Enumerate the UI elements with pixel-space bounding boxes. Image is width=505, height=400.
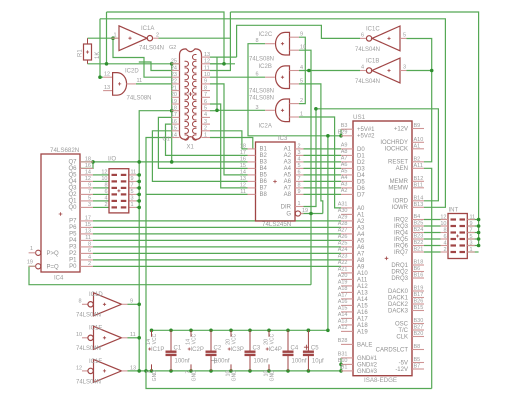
svg-text:18: 18	[240, 144, 246, 150]
svg-text:A10: A10	[357, 271, 368, 277]
svg-text:C5: C5	[311, 346, 319, 352]
svg-text:A2: A2	[284, 153, 292, 159]
svg-text:IRQ6: IRQ6	[394, 243, 409, 249]
svg-text:B2: B2	[414, 157, 421, 163]
svg-text:13: 13	[104, 85, 110, 91]
svg-text:B16: B16	[414, 273, 424, 279]
svg-text:10: 10	[300, 45, 306, 51]
svg-text:10µf: 10µf	[312, 359, 324, 365]
svg-text:OSC: OSC	[395, 321, 409, 327]
svg-text:B8: B8	[414, 344, 421, 350]
svg-text:A14: A14	[338, 312, 348, 318]
svg-text:-5V: -5V	[399, 360, 408, 366]
wire IC1A.1 node to X1 p23	[113, 38, 172, 77]
cap rail dots	[169, 329, 173, 333]
svg-text:C2: C2	[214, 346, 222, 352]
svg-text:DACK3: DACK3	[388, 308, 409, 314]
svg-text:A1: A1	[414, 144, 421, 150]
svg-text:16: 16	[85, 163, 91, 169]
svg-text:INT: INT	[449, 208, 459, 214]
origin cross	[212, 358, 218, 364]
svg-text:100nf: 100nf	[215, 359, 230, 365]
svg-text:10: 10	[101, 176, 107, 182]
svg-text:A30: A30	[338, 208, 348, 214]
svg-text:P2: P2	[69, 251, 77, 257]
svg-text:74LS08N: 74LS08N	[127, 96, 152, 102]
svg-text:7: 7	[470, 227, 473, 233]
svg-text:5: 5	[300, 78, 303, 84]
svg-text:B18: B18	[414, 260, 424, 266]
svg-text:1K: 1K	[95, 52, 101, 59]
svg-text:7: 7	[204, 92, 207, 98]
svg-text:74LS08N: 74LS08N	[249, 57, 274, 63]
682 P>Q pin	[36, 250, 41, 255]
svg-text:1: 1	[204, 132, 207, 138]
junction dots	[111, 36, 115, 40]
svg-text:4: 4	[88, 255, 91, 261]
wire X1 p10 to IC2B output	[210, 76, 265, 78]
svg-text:P1: P1	[69, 258, 77, 264]
wire G row	[301, 213, 323, 215]
svg-text:7: 7	[298, 176, 301, 182]
svg-text:D5: D5	[357, 179, 365, 185]
svg-text:IC2C: IC2C	[259, 32, 273, 38]
svg-text:B15: B15	[414, 305, 424, 311]
svg-text:4: 4	[104, 196, 107, 202]
wire IC2B.5 down to G net	[299, 84, 323, 214]
svg-text:B10: B10	[338, 358, 348, 364]
svg-text:74LS04N: 74LS04N	[76, 313, 101, 319]
connector INT	[448, 214, 467, 259]
svg-text:B19: B19	[414, 286, 424, 292]
svg-text:A12: A12	[338, 325, 348, 331]
svg-text:IC1F: IC1F	[89, 359, 102, 365]
svg-text:IC2A: IC2A	[259, 124, 272, 130]
svg-text:A8: A8	[357, 258, 365, 264]
svg-text:Q3: Q3	[68, 186, 77, 192]
inverter IC1A	[112, 37, 120, 39]
svg-text:B7: B7	[260, 186, 268, 192]
svg-text:A28: A28	[338, 221, 348, 227]
svg-text:5: 5	[403, 33, 406, 39]
wire X1 p5 stub join	[210, 110, 217, 112]
capacitor C3	[249, 330, 251, 351]
svg-text:RESET: RESET	[388, 160, 408, 166]
svg-text:P3: P3	[69, 245, 77, 251]
svg-text:12: 12	[204, 59, 210, 65]
svg-text:9: 9	[298, 189, 301, 195]
svg-text:VCC: VCC	[152, 333, 158, 344]
svg-text:17: 17	[240, 150, 246, 156]
svg-text:B3: B3	[341, 123, 348, 129]
svg-text:A16: A16	[357, 310, 368, 316]
svg-text:20: 20	[171, 92, 177, 98]
svg-text:A18: A18	[357, 323, 368, 329]
svg-text:IRQ2: IRQ2	[394, 217, 409, 223]
connector X1 DB25 outline	[180, 49, 202, 140]
svg-text:P5: P5	[69, 232, 77, 238]
svg-text:IRQ4: IRQ4	[394, 230, 409, 236]
svg-text:10: 10	[76, 332, 82, 338]
svg-text:GND: GND	[152, 370, 158, 382]
IC3 74LS245N	[256, 142, 296, 221]
svg-text:74LS682N: 74LS682N	[50, 147, 79, 154]
svg-text:D4: D4	[357, 173, 365, 179]
svg-text:2: 2	[298, 144, 301, 150]
svg-text:P4: P4	[69, 238, 77, 244]
svg-text:A12: A12	[357, 284, 368, 290]
svg-text:B26: B26	[414, 299, 424, 305]
svg-text:74LS04N: 74LS04N	[355, 79, 380, 85]
svg-text:A25: A25	[338, 241, 348, 247]
svg-text:25: 25	[171, 59, 177, 65]
AND gate IC2B	[276, 66, 290, 89]
wire gnd column p25-p18-162	[171, 64, 173, 162]
svg-text:B1: B1	[341, 365, 348, 371]
wire INT net top rail	[230, 12, 478, 245]
wire X1 p13 across	[210, 56, 237, 58]
svg-text:IC1A: IC1A	[141, 26, 154, 32]
svg-text:-12V: -12V	[395, 367, 408, 373]
svg-text:13: 13	[204, 52, 210, 58]
svg-text:7: 7	[131, 183, 134, 189]
svg-text:T/C: T/C	[398, 328, 408, 334]
svg-text:B2: B2	[260, 153, 268, 159]
svg-text:3: 3	[470, 240, 473, 246]
wire branch into 245 B8	[146, 193, 248, 195]
wire IC1D out to IO column	[128, 303, 140, 305]
wire X1 p16 to 245 B2	[166, 124, 248, 155]
svg-text:A5: A5	[357, 238, 365, 244]
svg-text:A20: A20	[338, 273, 348, 279]
svg-text:P0: P0	[69, 264, 77, 270]
svg-text:A13: A13	[357, 290, 368, 296]
svg-text:12: 12	[440, 214, 446, 220]
svg-text:D3: D3	[357, 166, 365, 172]
svg-text:A15: A15	[338, 306, 348, 312]
svg-text:IOCHCK: IOCHCK	[385, 147, 408, 153]
svg-text:74LS04N: 74LS04N	[76, 346, 101, 352]
svg-text:B13: B13	[414, 202, 424, 208]
svg-text:G1: G1	[163, 137, 170, 143]
svg-text:A9: A9	[357, 264, 365, 270]
svg-text:IOWR: IOWR	[392, 205, 409, 211]
svg-text:8: 8	[443, 227, 446, 233]
svg-text:8: 8	[298, 183, 301, 189]
svg-text:Q2: Q2	[68, 192, 77, 198]
svg-text:9: 9	[130, 299, 133, 305]
svg-text:19: 19	[171, 99, 177, 105]
svg-text:A3: A3	[341, 182, 348, 188]
svg-text:A14: A14	[357, 297, 368, 303]
IC4 74LS682N comparator	[41, 154, 80, 272]
inverter IC1B	[372, 58, 400, 83]
svg-text:GND: GND	[270, 370, 276, 382]
svg-text:B4: B4	[260, 166, 268, 172]
svg-text:1: 1	[298, 201, 301, 207]
svg-text:B17: B17	[414, 292, 424, 298]
svg-text:B8: B8	[260, 192, 268, 198]
svg-text:D6: D6	[357, 186, 365, 192]
svg-text:11: 11	[131, 170, 137, 176]
svg-text:1: 1	[30, 246, 33, 252]
svg-text:GND: GND	[232, 370, 238, 382]
svg-text:19: 19	[302, 208, 308, 214]
wire X1 p6 to 245 B7	[210, 104, 248, 188]
682 P=Q pin	[36, 264, 41, 269]
svg-text:11: 11	[204, 65, 210, 71]
svg-text:4: 4	[300, 65, 303, 71]
inverter IC1C	[372, 26, 400, 51]
capacitor C5	[307, 330, 309, 351]
svg-text:B1: B1	[260, 147, 268, 153]
svg-text:B6: B6	[414, 266, 421, 272]
svg-text:14: 14	[240, 170, 246, 176]
resistor R1	[84, 44, 92, 60]
svg-text:IC1D: IC1D	[89, 292, 103, 298]
svg-text:VCC: VCC	[270, 333, 276, 344]
svg-text:A4: A4	[341, 175, 348, 181]
svg-text:A11: A11	[357, 277, 368, 283]
svg-text:DACK1: DACK1	[388, 295, 409, 301]
svg-text:19: 19	[27, 260, 33, 266]
svg-text:A26: A26	[338, 234, 348, 240]
svg-text:1: 1	[470, 247, 473, 253]
svg-text:16: 16	[240, 157, 246, 163]
svg-text:A10: A10	[414, 137, 424, 143]
svg-text:+12V: +12V	[394, 126, 408, 132]
svg-text:IOCHRDY: IOCHRDY	[380, 140, 408, 146]
wire IC1A output to top rail	[159, 12, 231, 38]
svg-text:5: 5	[204, 106, 207, 112]
svg-text:Q5: Q5	[68, 173, 77, 179]
svg-text:12: 12	[101, 170, 107, 176]
wire 682 P rows to US1 A rows	[93, 220, 341, 222]
svg-text:A18: A18	[338, 286, 348, 292]
svg-text:VCC: VCC	[232, 333, 238, 344]
svg-text:9: 9	[300, 32, 303, 38]
wire X1 p11 to IC1A output rail	[210, 38, 230, 70]
svg-text:Q4: Q4	[68, 179, 77, 185]
svg-text:1: 1	[300, 112, 303, 118]
wire IC2C.9 to IC2A.2	[299, 37, 305, 103]
svg-text:9: 9	[131, 176, 134, 182]
svg-text:P=Q: P=Q	[47, 265, 60, 271]
svg-text:4: 4	[298, 157, 301, 163]
svg-text:B31: B31	[338, 352, 348, 358]
svg-text:14: 14	[171, 132, 177, 138]
svg-text:IC2P: IC2P	[191, 347, 204, 353]
svg-text:GND#1: GND#1	[357, 356, 378, 362]
svg-text:CARDSLCT: CARDSLCT	[376, 347, 409, 353]
wire IRQ rows US1 to INT	[424, 219, 441, 221]
svg-text:IC1B: IC1B	[366, 59, 379, 65]
inverter IC1F	[82, 370, 88, 372]
wire RESET column and IC1C input	[407, 39, 432, 162]
svg-text:A7: A7	[341, 156, 348, 162]
wire IORD net	[316, 109, 439, 201]
wire 682 Q5-Q0 to IO jumper	[93, 174, 109, 176]
wire X1 p18 to IO column	[139, 111, 172, 371]
US1 ISA8-EDGE	[353, 121, 412, 376]
svg-text:A7: A7	[284, 186, 292, 192]
svg-text:P6: P6	[69, 225, 77, 231]
svg-text:A7: A7	[357, 251, 365, 257]
svg-text:17: 17	[171, 112, 177, 118]
svg-text:C3: C3	[253, 346, 261, 352]
svg-text:B20: B20	[414, 331, 424, 337]
svg-text:A22: A22	[338, 260, 348, 266]
wire IC2A.1 down to A31	[299, 117, 341, 208]
svg-text:D7: D7	[357, 192, 365, 198]
svg-text:15: 15	[85, 222, 91, 228]
svg-text:23: 23	[171, 72, 177, 78]
svg-text:Q0: Q0	[68, 205, 77, 211]
svg-text:8: 8	[256, 38, 259, 44]
svg-text:R1: R1	[78, 49, 84, 57]
wire IC2C.10 down G net column	[299, 50, 311, 285]
svg-text:A8: A8	[341, 149, 348, 155]
svg-text:A6: A6	[284, 179, 292, 185]
svg-text:8: 8	[204, 85, 207, 91]
svg-text:D0: D0	[357, 147, 365, 153]
svg-text:D2: D2	[357, 160, 365, 166]
svg-text:B11: B11	[414, 183, 423, 189]
svg-text:IC1P: IC1P	[151, 347, 164, 353]
wire G net bottom to P=Q	[29, 266, 311, 284]
svg-text:A17: A17	[357, 316, 368, 322]
wire +5V tie B3-B29	[340, 129, 342, 136]
svg-text:+5V#2: +5V#2	[357, 134, 375, 140]
svg-text:B12: B12	[414, 176, 424, 182]
svg-text:I/O: I/O	[108, 157, 116, 163]
svg-text:A19: A19	[338, 280, 348, 286]
svg-text:6: 6	[443, 234, 446, 240]
svg-text:5: 5	[131, 189, 134, 195]
svg-text:A15: A15	[357, 303, 368, 309]
svg-text:A16: A16	[338, 299, 348, 305]
svg-text:BALE: BALE	[357, 342, 372, 348]
svg-text:MEMW: MEMW	[388, 186, 408, 192]
svg-text:11: 11	[137, 78, 143, 84]
wire +5V column down to cap rail	[327, 136, 329, 330]
wire X1 p1 to B1 stub	[210, 138, 253, 149]
svg-text:4: 4	[361, 65, 364, 71]
svg-text:DIR: DIR	[281, 204, 292, 210]
wire IC1E out to IO column	[128, 337, 140, 339]
svg-text:3: 3	[256, 105, 259, 111]
svg-text:G: G	[286, 211, 291, 217]
svg-text:DRQ3: DRQ3	[391, 276, 408, 282]
wire X1 p9 to 245 B5	[210, 84, 248, 175]
svg-text:DACK0: DACK0	[388, 289, 409, 295]
svg-text:IRQ3: IRQ3	[394, 224, 409, 230]
svg-text:B5: B5	[414, 357, 421, 363]
wire IO right pins to column	[129, 174, 137, 176]
wire gnd pins US1 tie	[340, 358, 342, 371]
svg-text:B30: B30	[414, 318, 424, 324]
wire p12 tail	[210, 63, 235, 65]
inverter IC1D	[82, 303, 88, 305]
svg-text:AEN: AEN	[396, 166, 408, 172]
svg-text:22: 22	[171, 79, 177, 85]
svg-text:6: 6	[256, 72, 259, 78]
svg-text:IC3: IC3	[278, 136, 288, 142]
svg-text:9: 9	[470, 221, 473, 227]
svg-text:A13: A13	[338, 319, 348, 325]
svg-text:Q7: Q7	[68, 160, 77, 166]
svg-text:6: 6	[361, 33, 364, 39]
wire IC2B.4 to IC1B output	[299, 70, 360, 72]
connector I/O jumper	[109, 169, 129, 213]
svg-text:12: 12	[85, 176, 91, 182]
svg-text:4: 4	[443, 240, 446, 246]
X1 right pins 13-1	[202, 56, 211, 58]
wire IC2C output down to +5V line	[248, 44, 341, 136]
svg-text:A19: A19	[357, 329, 368, 335]
wire AEN loop right side and bottom	[424, 168, 432, 388]
svg-text:3: 3	[403, 65, 406, 71]
svg-text:74LS04N: 74LS04N	[76, 379, 101, 385]
svg-text:7: 7	[88, 189, 91, 195]
svg-text:21: 21	[171, 85, 177, 91]
power gate IC3P	[230, 330, 232, 337]
power gate IC2P	[190, 330, 192, 337]
power gate IC1P	[151, 330, 153, 337]
svg-text:5: 5	[88, 196, 91, 202]
svg-text:12: 12	[104, 72, 110, 78]
svg-text:15: 15	[171, 126, 177, 132]
svg-text:A27: A27	[338, 228, 348, 234]
svg-text:11: 11	[85, 235, 91, 241]
svg-text:VCC: VCC	[192, 333, 198, 344]
svg-text:X1: X1	[187, 145, 195, 151]
wire INT right pins to top-rail column	[467, 219, 478, 221]
svg-text:B4: B4	[414, 214, 421, 220]
svg-text:B28: B28	[338, 338, 348, 344]
svg-text:2: 2	[300, 98, 303, 104]
svg-text:4: 4	[204, 112, 207, 118]
svg-text:10: 10	[204, 72, 210, 78]
power gate IC4P	[268, 330, 270, 337]
svg-text:5: 5	[298, 163, 301, 169]
svg-text:15: 15	[240, 163, 246, 169]
svg-text:A0: A0	[357, 206, 365, 212]
svg-text:8: 8	[79, 299, 82, 305]
svg-text:A2: A2	[357, 219, 365, 225]
svg-text:B24: B24	[414, 227, 424, 233]
AND gate IC2A	[276, 99, 290, 122]
wire X1 p15 to 245 B6	[152, 131, 247, 182]
inverter IC1E	[82, 337, 88, 339]
svg-text:ISA8-EDGE: ISA8-EDGE	[364, 377, 397, 384]
svg-text:A23: A23	[338, 254, 348, 260]
svg-text:74LS04N: 74LS04N	[139, 46, 164, 52]
svg-text:B5: B5	[260, 173, 268, 179]
wire IOWR drop to IC2D.12	[100, 19, 103, 77]
svg-text:2: 2	[156, 33, 159, 39]
svg-text:IORD: IORD	[393, 199, 409, 205]
svg-text:B21: B21	[414, 247, 424, 253]
svg-text:8: 8	[88, 242, 91, 248]
svg-text:IC1C: IC1C	[366, 27, 380, 33]
wire p13 net up over to IC1C output	[237, 25, 360, 57]
capacitor C2	[210, 330, 212, 351]
svg-text:B23: B23	[414, 234, 424, 240]
svg-text:3: 3	[131, 196, 134, 202]
svg-text:A29: A29	[338, 215, 348, 221]
svg-text:GND: GND	[192, 370, 198, 382]
